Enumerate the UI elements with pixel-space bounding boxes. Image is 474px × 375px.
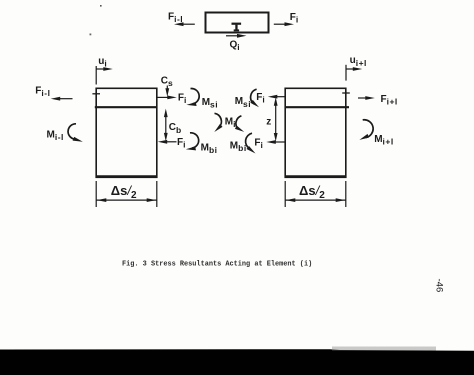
svg-text:Fi: Fi — [290, 12, 299, 25]
label M si (right element) — [235, 96, 251, 109]
label F i (right element upper) — [256, 92, 265, 105]
svg-text:Mbi: Mbi — [230, 141, 247, 154]
moment arc M bi (left element, cw, arrow at bottom pointing left) — [186, 133, 199, 151]
extension line left (left element) — [95, 181, 97, 207]
svg-text:Mi+l: Mi+l — [374, 134, 394, 147]
svg-text:ui+l: ui+l — [350, 55, 367, 68]
moment arc M bi (right element, ccw, arrow at bottom pointing right) — [246, 133, 256, 153]
label M i+1 — [374, 134, 394, 147]
svg-text:-46: -46 — [434, 279, 445, 293]
label M bi (left element) — [201, 143, 218, 156]
force arrow F i (left element lower, pointing left into body) — [158, 140, 177, 144]
svg-text:Fi+l: Fi+l — [381, 94, 398, 107]
right element slab interface line — [285, 106, 349, 108]
dimension line C s (down arrow) — [165, 86, 169, 97]
speck left of element — [90, 34, 92, 36]
force arrow F i (top, pointing right) — [274, 22, 294, 26]
force arrow F i (right element upper, pointing left) — [268, 95, 286, 99]
label z — [266, 116, 271, 127]
displacement mark u i (corner with right arrow) — [96, 66, 113, 85]
label Q i — [230, 40, 241, 53]
moment arc M i left (cw, arrow at bottom pointing down-left) — [214, 113, 222, 132]
label Delta s/2 (right element) — [299, 183, 325, 201]
shear arrow Q i (pointing right) — [226, 34, 247, 38]
moment arc M si (right element, ccw, arrow at bottom pointing right) — [250, 89, 259, 107]
figure caption — [122, 261, 312, 269]
svg-text:Mi: Mi — [225, 116, 236, 129]
label F i (right element lower) — [254, 138, 263, 151]
dimension line Delta s/2 (left element) — [96, 198, 157, 202]
force arrow F i-1 (top, pointing left) — [174, 22, 195, 26]
moment arc M i+1 (cw, arrow at bottom pointing left) — [359, 120, 373, 140]
svg-text:Msi: Msi — [235, 96, 251, 109]
svg-text:Fi: Fi — [178, 92, 187, 105]
label M i (center) — [225, 116, 236, 129]
svg-text:Fig. 3 Stress Resultants Acti: Fig. 3 Stress Resultants Acting at Eleme… — [122, 261, 312, 269]
bottom scanner bar — [0, 347, 474, 375]
dimension line C b (arrows both ends) — [164, 109, 168, 142]
label C b — [169, 122, 182, 135]
label u i — [98, 56, 107, 69]
extension line left (right element) — [284, 181, 286, 207]
label F i-1 (left element) — [35, 85, 50, 98]
label F i-1 (top) — [168, 12, 183, 25]
svg-text:Mbi: Mbi — [201, 143, 218, 156]
svg-text:Fi: Fi — [256, 92, 265, 105]
left element slab interface line — [95, 106, 157, 108]
beam segment box (top free body) — [206, 13, 269, 33]
tick on left edge of left element — [92, 93, 100, 95]
moment arc M i right (ccw, arrow at bottom pointing down-right) — [235, 116, 244, 132]
label M i-1 — [47, 130, 64, 143]
label C s — [161, 75, 173, 88]
label F i+1 — [381, 94, 398, 107]
force arrow F i-1 (left element, pointing left) — [51, 97, 73, 101]
page number -46 (rotated) — [434, 279, 445, 293]
right element body — [285, 88, 346, 177]
extension line right (right element) — [345, 181, 347, 207]
label u i+1 — [350, 55, 367, 68]
tick on right edge of right element — [342, 92, 350, 94]
svg-text:Fi-l: Fi-l — [35, 85, 50, 98]
label M bi (right element) — [230, 141, 247, 154]
label F i (left element upper) — [178, 92, 187, 105]
rail section glyph inside top box — [232, 23, 242, 32]
force arrow F i (left element upper, pointing right) — [157, 96, 177, 100]
left element body — [96, 88, 157, 177]
dimension line z (arrows both ends) — [274, 97, 278, 141]
right element thick bottom edge — [285, 175, 346, 178]
displacement mark u i+1 (corner with right arrow) — [346, 65, 362, 81]
extension line right (left element) — [156, 181, 158, 207]
svg-text:Msi: Msi — [202, 97, 218, 110]
svg-text:ui: ui — [98, 56, 107, 69]
force arrow F i+1 (pointing right) — [358, 96, 375, 100]
dimension line Delta s/2 (right element) — [285, 198, 346, 202]
label F i (left element lower) — [177, 137, 186, 150]
speck near top — [100, 5, 102, 7]
svg-text:Qi: Qi — [230, 40, 241, 53]
svg-text:Fi: Fi — [254, 138, 263, 151]
moment arc M i-1 (ccw, arrow at bottom pointing right) — [68, 124, 83, 142]
moment arc M si (left element, cw, arrow at bottom pointing left) — [186, 89, 199, 106]
label M si (left element) — [202, 97, 218, 110]
svg-text:Fi-l: Fi-l — [168, 12, 183, 25]
label F i (top) — [290, 12, 299, 25]
left element thick bottom edge — [96, 175, 157, 178]
svg-text:z: z — [266, 116, 271, 127]
svg-text:Cb: Cb — [169, 122, 182, 135]
force arrow F i (right element lower, pointing left) — [266, 140, 285, 144]
label Delta s/2 (left element) — [111, 183, 137, 201]
svg-text:Mi-l: Mi-l — [47, 130, 64, 143]
svg-text:Fi: Fi — [177, 137, 186, 150]
